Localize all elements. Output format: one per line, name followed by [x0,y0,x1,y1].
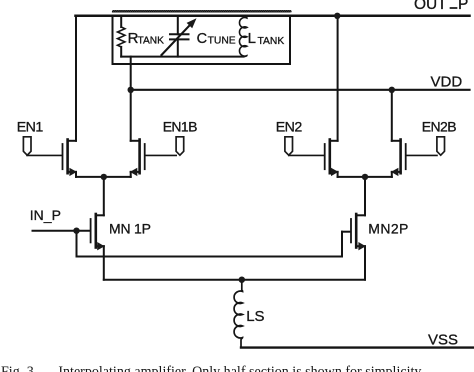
svg-text:EN1B: EN1B [163,119,197,135]
svg-text:LS: LS [246,308,264,325]
svg-text:VDD: VDD [431,73,463,90]
svg-text:TANK: TANK [138,36,165,47]
svg-text:L: L [248,30,256,47]
svg-text:MN2P: MN2P [368,221,409,237]
svg-text:OUT: OUT [414,0,447,13]
svg-text:EN1: EN1 [17,120,44,136]
svg-text:VSS: VSS [428,332,458,349]
svg-text:Fig. 3. Interpolating amp: Fig. 3. Interpolating amplifier. Only ha… [1,364,424,372]
svg-text:TANK: TANK [258,36,285,47]
svg-text:MN 1P: MN 1P [109,221,151,237]
svg-text:P: P [458,0,468,13]
svg-text:C: C [197,31,207,47]
svg-text:EN2: EN2 [276,120,303,136]
svg-text:EN2B: EN2B [422,119,456,135]
svg-text:IN_P: IN_P [30,207,61,223]
svg-text:TUNE: TUNE [208,36,236,47]
